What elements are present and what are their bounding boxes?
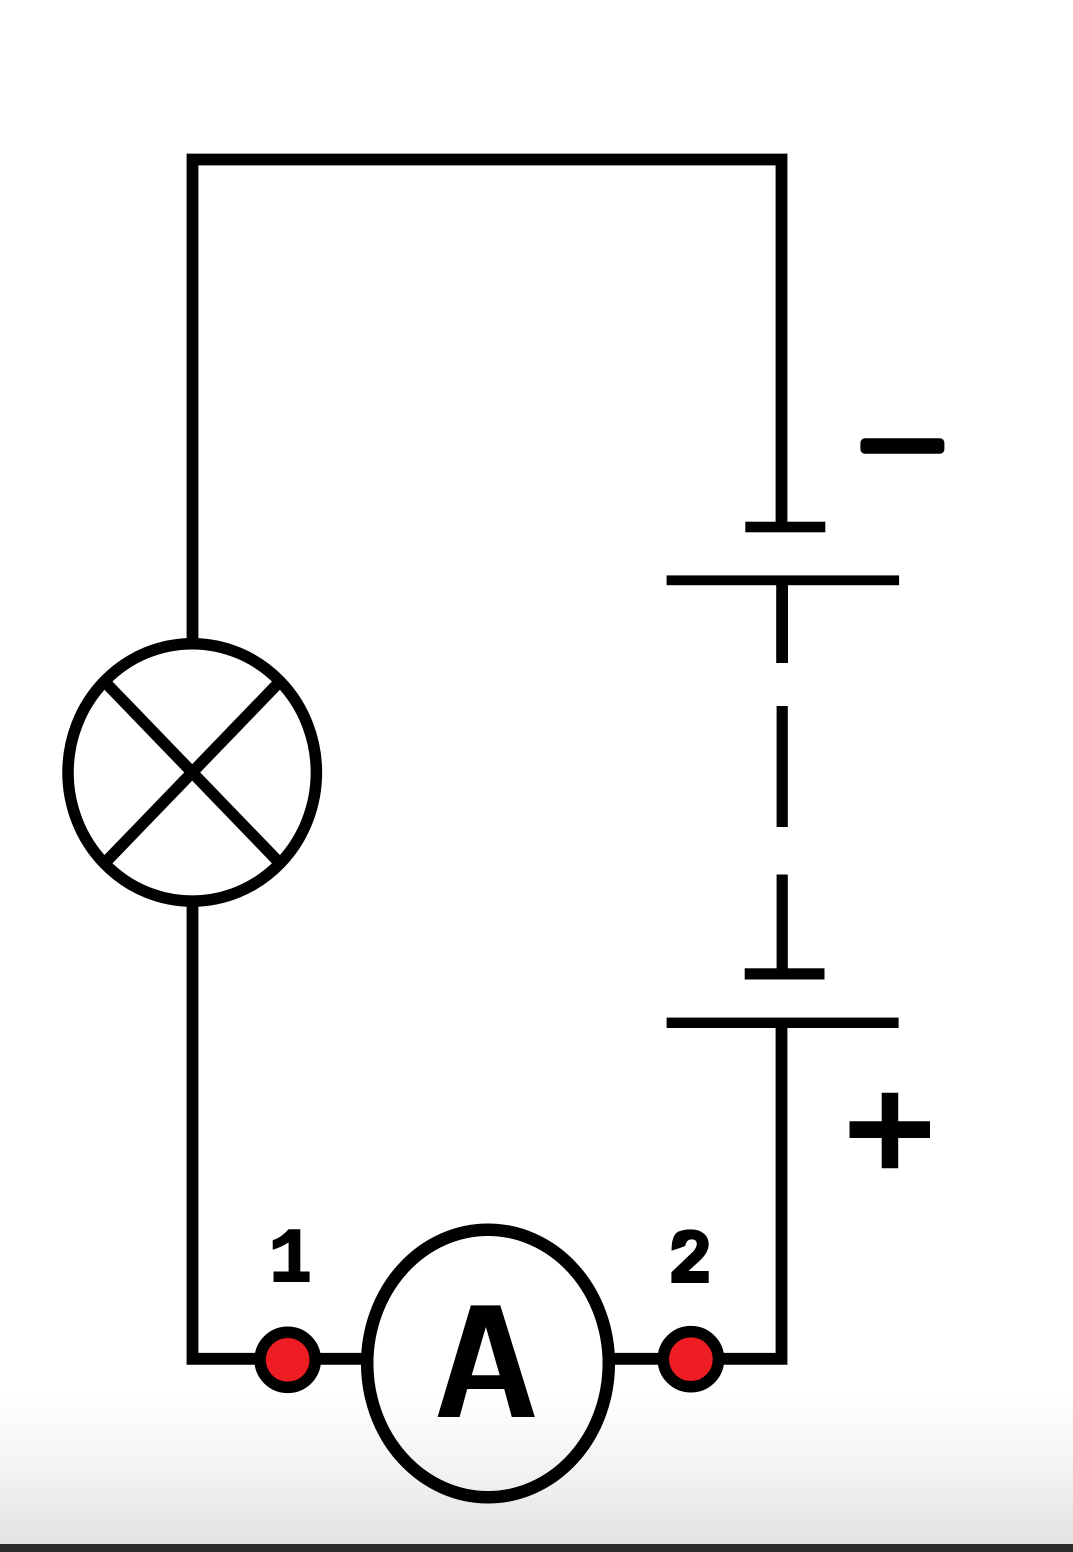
- battery positive terminal label "+": [850, 1093, 931, 1169]
- terminal node 2 (red dot): [663, 1332, 718, 1387]
- wire: lamp bottom down to bottom-left corner and right to ammeter: [193, 903, 364, 1359]
- lamp L1 (circle with X): [68, 644, 316, 901]
- node label "2": [671, 1229, 708, 1283]
- battery negative terminal label "-": [860, 438, 944, 453]
- wire: stub above cell 2 negative plate: [777, 875, 788, 969]
- ammeter label "A": [438, 1305, 535, 1417]
- battery B1 cell 1 positive plate (long): [667, 575, 900, 585]
- terminal node 1 (red dot): [260, 1332, 315, 1387]
- battery B1 cell 2 negative plate (short): [745, 968, 825, 979]
- wire: ammeter right to bottom-right corner and up to battery positive plate: [614, 1028, 782, 1359]
- node label "1": [273, 1229, 301, 1271]
- battery B1 cell 1 negative plate (short): [745, 522, 825, 533]
- wire: dashed link between cells: [777, 706, 788, 827]
- battery B1 cell 2 positive plate (long): [667, 1018, 899, 1028]
- wire: top loop from lamp top, across top, down to battery negative plate: [193, 160, 782, 643]
- wire: stub below cell 1 positive plate: [776, 585, 788, 663]
- ammeter U1 circle: [367, 1230, 609, 1498]
